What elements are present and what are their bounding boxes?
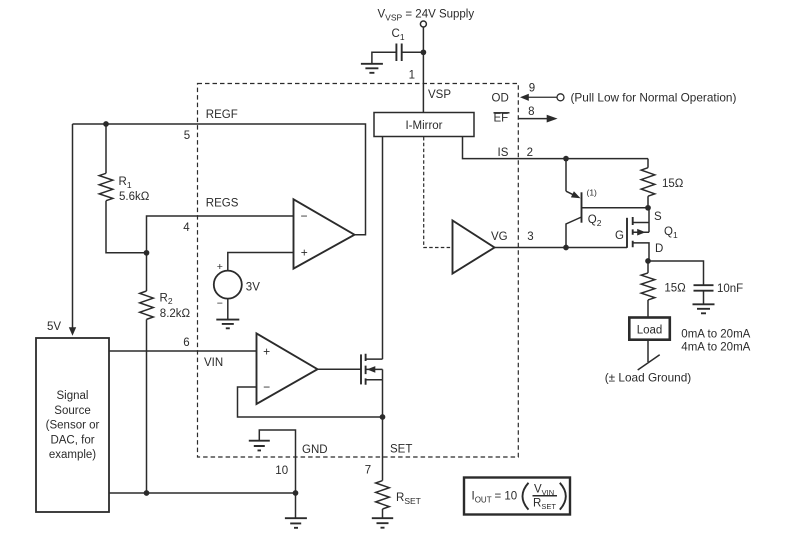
signal source box xyxy=(36,338,109,512)
formula box IOUT xyxy=(464,478,570,515)
svg-text:VIN: VIN xyxy=(204,357,223,369)
svg-text:(Pull Low for Normal Operation: (Pull Low for Normal Operation) xyxy=(571,91,737,105)
svg-text:EF: EF xyxy=(494,113,509,125)
svg-text:VG: VG xyxy=(491,231,508,243)
svg-text:1: 1 xyxy=(409,70,415,82)
svg-text:S: S xyxy=(654,211,662,223)
svg-text:6: 6 xyxy=(183,337,189,349)
svg-text:3V: 3V xyxy=(246,281,260,293)
svg-text:4mA to 20mA: 4mA to 20mA xyxy=(681,341,750,353)
svg-text:example): example) xyxy=(49,449,96,461)
capacitor C1 xyxy=(372,28,424,63)
svg-text:10: 10 xyxy=(275,465,288,477)
op-amp U3 VIN buffer xyxy=(257,333,318,404)
wire VG net xyxy=(495,247,628,249)
wire I-Mirror to M1 drain xyxy=(382,137,384,360)
svg-text:8: 8 xyxy=(528,106,534,118)
transistor Q2 xyxy=(566,159,648,248)
svg-text:9: 9 xyxy=(529,82,535,94)
ground RSET xyxy=(372,518,393,528)
svg-text:5V: 5V xyxy=(47,321,61,333)
svg-text:−: − xyxy=(263,380,270,394)
node IS junction Q2 xyxy=(563,156,569,162)
ground 3V xyxy=(216,320,239,329)
wire VIN net xyxy=(109,350,257,352)
svg-text:SET: SET xyxy=(390,444,412,456)
node R2 bottom junction xyxy=(144,490,150,496)
pin EF label xyxy=(494,113,510,125)
svg-text:−: − xyxy=(217,298,223,310)
ground 10nF xyxy=(693,304,715,313)
svg-text:OD: OD xyxy=(492,93,509,105)
wire bottom return xyxy=(109,492,296,494)
junction C1-VSP xyxy=(421,49,427,55)
op-amp U2 regulator xyxy=(294,199,355,268)
op-amp U4 VG buffer xyxy=(453,221,495,274)
ground GND pin internal xyxy=(249,430,296,493)
svg-text:8.2kΩ: 8.2kΩ xyxy=(160,308,191,320)
node divider junction xyxy=(144,250,150,256)
wire VSP supply to I-Mirror xyxy=(422,27,424,113)
svg-text:Source: Source xyxy=(54,405,90,417)
node VSP supply terminal xyxy=(378,9,475,28)
svg-text:10nF: 10nF xyxy=(717,283,743,295)
svg-text:(1): (1) xyxy=(587,188,598,198)
svg-text:(± Load Ground): (± Load Ground) xyxy=(605,371,692,385)
wire feedback U3 xyxy=(238,387,383,417)
svg-text:GND: GND xyxy=(302,444,328,456)
wire internal dashed I-Mirror to VG buffer xyxy=(424,137,452,248)
arrow into signal source xyxy=(69,327,76,336)
wire op-amp U3 output to gate xyxy=(318,368,362,370)
node SET junction xyxy=(380,414,386,420)
svg-text:+: + xyxy=(301,246,308,260)
IC boundary dashed box xyxy=(198,84,519,458)
svg-text:0mA to 20mA: 0mA to 20mA xyxy=(681,329,750,341)
transistor M1 SET mosfet xyxy=(361,354,383,385)
svg-text:G: G xyxy=(615,230,624,242)
node D junction xyxy=(645,258,651,264)
resistor R1 xyxy=(99,124,150,253)
svg-text:15Ω: 15Ω xyxy=(662,178,684,190)
svg-text:VSP: VSP xyxy=(428,89,451,101)
svg-text:+: + xyxy=(263,345,270,359)
wire 5V rail xyxy=(72,124,74,328)
wire OD pull xyxy=(520,91,736,105)
voltage source 3V xyxy=(214,253,294,320)
wire D node to cap xyxy=(648,261,704,285)
svg-text:DAC, for: DAC, for xyxy=(50,434,94,446)
wire REGF net xyxy=(73,124,366,235)
svg-text:2: 2 xyxy=(527,147,533,159)
svg-text:3: 3 xyxy=(527,231,533,243)
node REGF junction R1 xyxy=(103,121,109,127)
svg-text:I-Mirror: I-Mirror xyxy=(405,120,442,132)
svg-text:Signal: Signal xyxy=(57,390,89,402)
svg-text:4: 4 xyxy=(183,222,190,234)
svg-text:7: 7 xyxy=(365,465,371,477)
svg-text:5: 5 xyxy=(184,130,190,142)
svg-text:15Ω: 15Ω xyxy=(664,283,686,295)
svg-text:−: − xyxy=(300,209,307,223)
ground bottom xyxy=(285,518,307,528)
resistor 15ohm lower xyxy=(641,261,686,318)
svg-text:Load: Load xyxy=(637,325,663,337)
resistor RSET xyxy=(376,481,421,518)
node VG junction Q2 xyxy=(563,245,569,251)
transistor Q1 xyxy=(615,208,678,261)
svg-text:D: D xyxy=(655,243,663,255)
svg-text:5.6kΩ: 5.6kΩ xyxy=(119,191,150,203)
svg-text:= 10: = 10 xyxy=(495,491,518,503)
wire REGS net xyxy=(147,216,294,253)
svg-text:(Sensor or: (Sensor or xyxy=(46,420,100,432)
resistor R2 xyxy=(140,253,191,493)
I-Mirror block U1 xyxy=(374,113,474,137)
load box xyxy=(629,318,670,340)
wire EF output arrow xyxy=(518,115,558,123)
wire M1 source to SET xyxy=(382,380,384,481)
svg-text:REGS: REGS xyxy=(206,198,239,210)
wire GND to earth xyxy=(295,493,297,518)
capacitor 10nF xyxy=(694,283,744,304)
svg-text:+: + xyxy=(217,261,223,273)
svg-text:IS: IS xyxy=(498,147,509,159)
node GND bottom junction xyxy=(293,490,299,496)
node S junction xyxy=(645,205,651,211)
ground C1 xyxy=(361,64,383,73)
wire load ground with slash xyxy=(605,340,692,385)
wire IS net xyxy=(463,137,649,159)
resistor 15ohm upper xyxy=(641,159,684,208)
svg-text:REGF: REGF xyxy=(206,109,238,121)
